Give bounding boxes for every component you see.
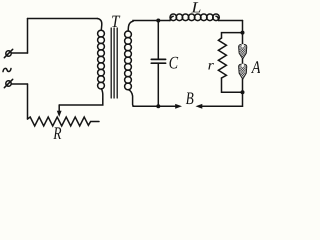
inductor L xyxy=(170,14,219,21)
label T xyxy=(112,16,120,27)
transformer primary coil xyxy=(97,19,104,100)
transformer secondary coil xyxy=(125,21,135,106)
transformer core xyxy=(111,28,117,98)
wire top-left horizontal xyxy=(28,18,98,20)
label L xyxy=(191,2,200,12)
wire secondary top to L xyxy=(133,20,170,23)
node dot capacitor bottom xyxy=(156,104,160,108)
wire bottom dot to bottom wire xyxy=(242,92,244,106)
wire element to bottom dot xyxy=(242,79,244,92)
label B xyxy=(186,93,194,105)
capacitor C plates xyxy=(151,59,165,63)
node dot parallel top xyxy=(241,31,245,35)
rheostat R zigzag xyxy=(28,117,100,126)
wire bottom terminal to vertical xyxy=(11,83,27,85)
terminal bottom-left xyxy=(4,79,12,87)
wire r bottom xyxy=(222,78,243,92)
label A xyxy=(251,61,260,73)
wire to resistor r branch xyxy=(222,33,243,38)
capacitor C bottom wire xyxy=(157,64,159,106)
right vertical wire xyxy=(242,21,244,33)
thermo ammeter element 1 xyxy=(239,44,247,59)
bottom wire left segment with right arrow xyxy=(133,104,182,109)
wire L to right corner xyxy=(219,20,243,22)
thermo ammeter element 2 xyxy=(239,64,247,80)
AC tilde symbol xyxy=(3,68,11,71)
capacitor C branch top wire xyxy=(157,21,159,59)
wire between elements xyxy=(242,59,244,64)
label r xyxy=(208,63,214,70)
wire top terminal to vertical xyxy=(11,52,27,54)
wire wiper to primary bottom xyxy=(59,99,103,105)
label R xyxy=(53,127,61,139)
rheostat wiper arrow xyxy=(57,105,62,117)
resistor r zigzag xyxy=(218,38,226,78)
terminal top-left xyxy=(4,49,12,57)
wire left vertical upper xyxy=(27,19,29,54)
node dot parallel bottom xyxy=(241,90,245,94)
wire top dot to thermo element xyxy=(242,33,244,45)
label C xyxy=(170,57,179,69)
wire left vertical lower xyxy=(27,84,29,119)
bottom wire right segment with left arrow xyxy=(196,104,243,109)
node dot capacitor top xyxy=(156,19,160,23)
